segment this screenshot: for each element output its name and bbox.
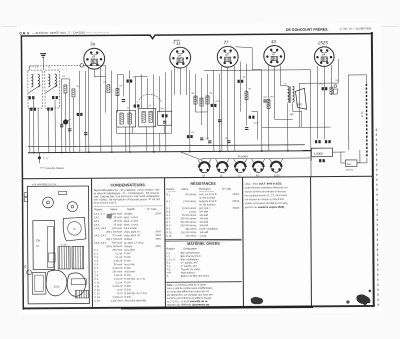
wires valve 43 legs <box>251 65 281 150</box>
svg-text:0,1 mf: 0,1 mf <box>115 252 122 255</box>
mains entry block left bottom of plan <box>32 273 46 295</box>
capacitor capacitor C21 <box>263 100 266 102</box>
svg-text:25Z5: 25Z5 <box>54 284 60 288</box>
svg-text:C 6: C 6 <box>94 267 99 270</box>
svg-text:74021: 74021 <box>232 193 240 196</box>
tube 25Z5 <box>314 40 334 66</box>
IF can 1 on plan (hatched) <box>58 246 70 269</box>
svg-text:0,25 mf: 0,25 mf <box>114 260 123 263</box>
svg-text:P 200: P 200 <box>124 252 131 255</box>
svg-text:E 200: E 200 <box>124 288 131 291</box>
svg-text:G.R. 5: G.R. 5 <box>19 31 29 35</box>
svg-text:reporter aux différents docume: reporter aux différents documents pu- <box>167 303 210 306</box>
svg-text:250 mmf: 250 mmf <box>112 249 122 252</box>
svg-text:MATÉRIEL DIVERS: MATÉRIEL DIVERS <box>187 241 220 246</box>
svg-text:MF: MF <box>178 56 182 58</box>
svg-text:Cette dernière résistance effe: Cette dernière résistance effectuée sui- <box>245 186 289 189</box>
svg-text:VUE ARRIÈRE DU CH.: VUE ARRIÈRE DU CH. <box>32 183 57 186</box>
wire 77 plate coupling <box>235 47 262 151</box>
trimmer arrow across L1 <box>28 85 40 93</box>
mains switch block <box>345 160 357 172</box>
wire antenna down-lead <box>42 58 44 66</box>
small part rect inside plan centre <box>49 253 56 262</box>
svg-text:CH: CH <box>36 239 40 243</box>
line cord resistor R25 (vertical chain) <box>365 84 368 158</box>
svg-text:chaque: chaque <box>124 238 133 241</box>
svg-text:Spécif.: Spécif. <box>127 208 135 211</box>
aerial terminal strip tab <box>24 193 27 202</box>
capacitor tuning capacitor CV1 <box>29 96 35 99</box>
separator rule above parts lists <box>23 176 372 178</box>
coil coil L1 secondary <box>38 74 40 87</box>
svg-text:0,05 mf: 0,05 mf <box>114 274 123 277</box>
resistor R1 grid leak <box>64 85 67 93</box>
svg-text:CD: CD <box>225 138 229 140</box>
svg-text:1 watt: 1 watt <box>199 235 206 238</box>
svg-text:C 13: C 13 <box>94 292 100 295</box>
svg-text:mica tube: mica tube <box>124 263 135 266</box>
svg-text:CA 3: CA 3 <box>94 224 100 227</box>
capacitor capacitor C8 <box>162 114 168 117</box>
capacitor padder capacitor C5 <box>126 79 132 82</box>
tube 78 <box>84 42 105 70</box>
svg-text:C 4: C 4 <box>94 260 99 263</box>
valve socket 77 (under-chassis view) <box>234 159 247 177</box>
valve 25Z5 envelope on plan <box>46 270 67 296</box>
svg-text:74022: 74022 <box>232 200 240 203</box>
tube 43 <box>264 39 285 67</box>
svg-text:Repère: Repère <box>94 208 103 211</box>
wire HT rail upper <box>204 69 310 72</box>
svg-text:250 x 700mmf: 250 x 700mmf <box>106 238 122 241</box>
svg-text:11: 11 <box>176 41 181 46</box>
svg-text:réduite excessives du blâti du: réduite excessives du blâti du CV sans <box>245 202 289 205</box>
valve socket 25Z5 (under-chassis view) <box>270 159 283 177</box>
svg-text:MF: MF <box>92 57 96 59</box>
aerial coil can L1 (dashed screen) <box>28 70 43 108</box>
wires interstage verticals 78 to 11 <box>105 65 172 152</box>
svg-text:R 2: R 2 <box>166 200 171 203</box>
svg-text:R 11: R 11 <box>166 235 172 238</box>
svg-text:P 200: P 200 <box>124 256 131 259</box>
capacitor electrolytic capacitor C18 <box>315 140 321 143</box>
svg-text:C 11: C 11 <box>94 285 100 288</box>
capacitor capacitor C17 <box>322 87 328 90</box>
svg-text:2 500 ohms: 2 500 ohms <box>183 200 197 203</box>
capacitor capacitor C7 <box>134 104 140 107</box>
svg-text:700 mmf: 700 mmf <box>112 234 122 237</box>
IF can 2 on plan (hatched) <box>72 246 84 269</box>
trimmer arrow across L2 <box>45 85 57 93</box>
svg-text:C 10: C 10 <box>94 281 100 284</box>
header rule with registration notch <box>21 34 373 40</box>
valve socket hole top right of plan <box>67 202 77 212</box>
svg-text:74023: 74023 <box>232 207 240 210</box>
svg-text:8 mf: 8 mf <box>117 289 122 292</box>
svg-text:P 200 (Ex. av. C 6): P 200 (Ex. av. C 6) <box>124 278 145 281</box>
svg-text:C 15: C 15 <box>94 300 100 303</box>
svg-text:50 mmf: 50 mmf <box>114 263 123 266</box>
coil coil L2 secondary <box>55 74 57 87</box>
wire HT drop at x311 <box>309 70 311 128</box>
frame left border <box>21 36 24 310</box>
svg-text:E 200 (Ex. av. C 12): E 200 (Ex. av. C 12) <box>124 292 147 295</box>
svg-text:C 7: C 7 <box>94 271 99 274</box>
svg-text:C 9: C 9 <box>94 278 99 281</box>
scan smudge blob lower centre-right <box>251 297 263 304</box>
resistor R2 <box>72 89 75 97</box>
svg-text:500 mmf: 500 mmf <box>112 242 122 245</box>
svg-text:aj. ajust. 2 f. mica: aj. ajust. 2 f. mica <box>124 241 144 244</box>
svg-text:C 14: C 14 <box>94 296 100 299</box>
resistor R10 surge <box>330 87 333 94</box>
tube 77 <box>217 40 238 68</box>
svg-text:CA 8, CA 9: CA 8, CA 9 <box>94 242 107 245</box>
svg-text:CD: CD <box>206 138 210 140</box>
svg-text:P 400: P 400 <box>124 285 131 288</box>
svg-text:DR: DR <box>25 264 27 268</box>
svg-text:Fusibles: Fusibles <box>238 154 249 158</box>
svg-text:mica tube électrolyt.: mica tube électrolyt. <box>124 299 147 302</box>
capacitor capacitor C6 <box>122 100 125 102</box>
svg-text:C 2: C 2 <box>94 253 99 256</box>
grid-cap terminal on valve 78 <box>80 64 83 67</box>
svg-text:0,006 mf: 0,006 mf <box>112 267 122 270</box>
scan smudge blobs bottom right corner <box>346 290 371 306</box>
svg-text:CV: CV <box>36 245 40 248</box>
capacitor capacitor C3 <box>77 113 83 116</box>
chassis plan outer box <box>27 186 89 304</box>
svg-text:Repère: Repère <box>167 248 176 251</box>
heater bracket line over socket row <box>202 158 312 161</box>
svg-text:MF: MF <box>272 54 276 56</box>
svg-text:CA 6, CA 7: CA 6, CA 7 <box>94 234 107 237</box>
svg-text:P 200: P 200 <box>124 260 131 263</box>
resistor R9 bias <box>267 100 270 109</box>
nota paragraph materiel divers <box>167 284 214 307</box>
chassis connection dot <box>38 156 41 159</box>
svg-text:N° Cata: N° Cata <box>222 188 231 191</box>
nota paragraph about valves <box>245 182 289 209</box>
capacitor capacitor CD2 <box>227 141 230 143</box>
svg-text:78: 78 <box>90 42 95 47</box>
column divider between condensateurs and resistances <box>164 178 167 307</box>
padding condenser block <box>158 111 172 125</box>
svg-text:P 400: P 400 <box>124 267 131 270</box>
svg-text:perturer au numéros sequis: perturer au numéros sequis 25Z5) <box>245 206 285 209</box>
wires rectifier legs and HT rail <box>261 59 339 151</box>
wires output transformer to speaker <box>274 85 301 150</box>
antenna terminal symbol <box>40 54 46 58</box>
svg-text:MF: MF <box>322 55 326 57</box>
svg-text:0,1 mf: 0,1 mf <box>115 281 122 284</box>
svg-text:vant le schéma de principe ci-: vant le schéma de principe ci-dessus, <box>245 190 287 193</box>
svg-text:3910: 3910 <box>155 245 161 248</box>
svg-text:250 mmf: 250 mmf <box>112 270 122 273</box>
faint scan edge line top <box>2 26 398 28</box>
wire grid lead through 78 <box>83 64 103 66</box>
valve socket 43 (under-chassis view) <box>252 159 265 177</box>
wire bus slope to heater bracket <box>180 151 202 160</box>
resistor R3 screen dropper <box>107 85 110 93</box>
loudspeaker opening on plan <box>63 217 86 241</box>
svg-text:Repère: Repère <box>166 188 175 191</box>
column divider left of condensateur list <box>91 178 94 307</box>
output transformer block on plan <box>71 279 88 298</box>
capacitor capacitor C14 <box>237 80 243 83</box>
capacitor capacitor C11 <box>218 120 221 122</box>
svg-text:chaq. ajust. M.: chaq. ajust. M. <box>124 234 141 237</box>
resistor R8 plate load <box>245 92 248 100</box>
column divider right of nota block <box>310 177 313 306</box>
wires valve 77 legs <box>221 62 247 151</box>
capacitor electrolytic capacitor C19 <box>325 140 331 143</box>
svg-text:CA 2: CA 2 <box>94 220 100 223</box>
frame bottom border <box>23 305 375 309</box>
svg-text:ajust. 1 mica: ajust. 1 mica <box>124 220 139 223</box>
svg-text:Valeur: Valeur <box>110 208 117 211</box>
svg-text:P 400: P 400 <box>124 296 131 299</box>
svg-text:0,006 mf: 0,006 mf <box>113 285 123 288</box>
svg-text:DE GONCOURT FRÈRES.: DE GONCOURT FRÈRES. <box>286 27 328 32</box>
svg-text:2904: 2904 <box>155 212 161 215</box>
svg-text:R 25: R 25 <box>360 111 364 117</box>
svg-text:C 3: C 3 <box>94 256 99 259</box>
svg-text:500 ohms: 500 ohms <box>185 193 197 196</box>
wires left tuning section verticals <box>29 66 86 153</box>
frame right border outer speckle line <box>376 129 378 307</box>
svg-text:2500: 2500 <box>296 102 302 106</box>
socket DR label left edge <box>25 264 32 274</box>
wire chassis drop <box>38 153 40 163</box>
capacitor capacitor C15 <box>245 128 248 130</box>
double rule under resistances <box>165 239 241 241</box>
svg-text:sur-tension du réseau au b: sur-tension du réseau au bas d’étre <box>245 198 285 201</box>
svg-text:R 1: R 1 <box>166 193 171 196</box>
svg-text:35 mmf: 35 mmf <box>113 216 122 219</box>
svg-text:Tr. MF: Tr. MF <box>61 244 68 247</box>
coil coil L1 primary <box>31 74 33 87</box>
screen arc around IF transformer <box>137 94 161 102</box>
svg-text:C 1: C 1 <box>94 249 99 252</box>
svg-text:17 déc. 34 — SILVERTONE: 17 déc. 34 — SILVERTONE <box>340 27 371 30</box>
svg-text:Bobine de filtre 300 ohms.: Bobine de filtre 300 ohms. <box>181 275 210 278</box>
filter resistor block value 10000 <box>311 148 332 157</box>
small terminal block top right of plan <box>59 191 67 194</box>
capacitor capacitor C2 <box>68 129 71 131</box>
svg-text:chaque: chaque <box>124 245 133 248</box>
svg-text:C 5: C 5 <box>94 263 99 266</box>
svg-text:mica tube: mica tube <box>124 249 135 252</box>
earth bus main <box>28 151 311 153</box>
svg-text:P 200: P 200 <box>124 274 131 277</box>
svg-text:N° Cata: N° Cata <box>147 208 156 211</box>
frame right border <box>371 32 375 307</box>
svg-text:Légs. : Mod. D.R.F. 84-B et 25: Légs. : Mod. D.R.F. 84-B et 25Z5. <box>245 182 283 185</box>
svg-text:Valeur: Valeur <box>181 188 188 191</box>
capacitor terminal blobs can L1 <box>30 108 36 111</box>
svg-text:25Z5: 25Z5 <box>317 40 328 45</box>
wire divider drop at x 311 <box>310 151 312 177</box>
tube 11 <box>170 41 191 69</box>
output transformer core lines <box>289 86 290 103</box>
svg-text:1,200 mmf: 1,200 mmf <box>111 299 123 302</box>
capacitor capacitor C13 <box>200 138 203 140</box>
label Prise de chassis with arrow <box>40 166 65 170</box>
capacitor terminal blobs can L2 <box>47 108 53 111</box>
wires valve 78 cathode/screen legs <box>88 68 106 152</box>
svg-text:300 ohms: 300 ohms <box>185 235 197 238</box>
condensateurs value rows <box>94 212 162 302</box>
column divider right of resistances <box>242 177 245 306</box>
svg-text:0,006 mf: 0,006 mf <box>113 296 123 299</box>
svg-text:250 mmf: 250 mmf <box>112 227 122 230</box>
volume potentiometer P1 <box>61 119 71 125</box>
coil coil L2 primary <box>48 74 50 87</box>
svg-text:CA 1: CA 1 <box>94 216 100 219</box>
valve socket hole top left of plan <box>43 197 54 208</box>
svg-text:RÉSISTANCES: RÉSISTANCES <box>190 181 216 186</box>
capacitor C20 below filter <box>319 159 325 162</box>
resistor R4 <box>116 89 119 96</box>
svg-text:P 200: P 200 <box>124 281 131 284</box>
capacitor capacitor C12 <box>187 135 193 138</box>
condensateurs table header <box>93 206 162 211</box>
svg-text:variable: variable <box>124 212 133 215</box>
oscillator coil can L2 (dashed screen) <box>45 70 60 108</box>
capacitor capacitor C4 <box>84 133 87 135</box>
svg-text:35 mmf: 35 mmf <box>114 223 123 226</box>
ink smudge on condensateurs list <box>107 214 113 219</box>
svg-text:Secteur: Secteur <box>345 168 353 171</box>
wires line resistor connections <box>348 75 367 163</box>
svg-text:et de service pour E.: et de service pour E. <box>94 200 118 204</box>
capacitor tuning capacitor CV2 <box>52 96 58 99</box>
svg-text:3906: 3906 <box>155 238 161 241</box>
loudspeaker HP <box>295 88 306 109</box>
svg-text:les remplacements C1, C2, p: les remplacements C1, C2, peut chuts <box>245 194 288 197</box>
svg-text:8 mf: 8 mf <box>117 292 122 295</box>
svg-text:T.C.: T.C. <box>283 83 287 85</box>
wires IF cans to earth bus <box>117 125 172 152</box>
svg-text:HP: HP <box>290 112 294 116</box>
resistances value rows <box>166 193 240 238</box>
svg-text:43: 43 <box>271 39 276 44</box>
condensateurs introduction paragraph <box>94 188 161 205</box>
capacitor capacitor C1 <box>60 125 63 127</box>
wire antenna lead-in (dotted) <box>37 64 80 66</box>
resistances table header <box>166 188 231 192</box>
svg-text:CONDENSATEURS: CONDENSATEURS <box>110 183 145 187</box>
valve socket 78 (under-chassis view) <box>198 159 211 177</box>
svg-text:35 mmf: 35 mmf <box>114 220 123 223</box>
svg-text:77: 77 <box>224 40 229 45</box>
small reference labels scattered on schematic <box>35 65 339 141</box>
pilot lamp and dropper cluster <box>333 85 337 94</box>
IF transformer T2 can <box>139 108 156 127</box>
capacitor capacitor C9 <box>163 121 166 123</box>
svg-text:M: M <box>73 227 75 231</box>
capacitor capacitor C10 <box>211 104 217 107</box>
svg-text:3905: 3905 <box>155 230 161 233</box>
svg-text:Prise de châssis: Prise de châssis <box>45 166 65 170</box>
rule above nota paragraph <box>166 281 242 284</box>
wires stage 11-77 verticals <box>189 70 220 151</box>
svg-text:CA 4, CA 5: CA 4, CA 5 <box>94 227 107 230</box>
svg-text:MF: MF <box>225 55 229 57</box>
wires valve 11 legs <box>174 40 186 95</box>
svg-text:C 8: C 8 <box>94 274 99 277</box>
svg-text:C 12: C 12 <box>94 289 100 292</box>
svg-text:C 17: C 17 <box>43 157 49 160</box>
power transformer CH on plan <box>33 221 55 270</box>
svg-text:1 0000: 1 0000 <box>313 152 323 156</box>
svg-text:3905: 3905 <box>155 234 161 237</box>
wires filter to mains switch <box>303 150 360 163</box>
valve 43 envelope on plan <box>67 273 86 297</box>
svg-text:mica tube: mica tube <box>124 270 135 273</box>
svg-text:0,01 mf: 0,01 mf <box>114 278 123 281</box>
wire continue grid <box>103 64 105 66</box>
capacitor capacitor C16 <box>249 116 255 119</box>
junction dots on earth bus <box>33 150 289 154</box>
svg-text:— ÉLÉGANT. DÉPÔT Mod. 77 : CHA: — ÉLÉGANT. DÉPÔT Mod. 77 : CHASSIS —— ·—… <box>32 29 109 35</box>
IF transformer T1 can <box>117 110 136 127</box>
svg-text:Sect.: Sect. <box>346 163 352 166</box>
valve socket 11 (under-chassis view) <box>216 159 229 177</box>
bottom border darker mid segment <box>121 306 313 310</box>
svg-text:Puissance: Puissance <box>199 188 211 191</box>
capacitor capacitor CD1 <box>208 141 211 143</box>
materiel divers table header <box>167 247 198 250</box>
svg-text:0,1 mf: 0,1 mf <box>115 256 122 259</box>
svg-text:CA 1, 2, 3: CA 1, 2, 3 <box>94 213 106 216</box>
earth bus upper <box>28 145 305 147</box>
materiel divers rows <box>167 252 211 278</box>
svg-text:Désignation: Désignation <box>184 247 198 250</box>
